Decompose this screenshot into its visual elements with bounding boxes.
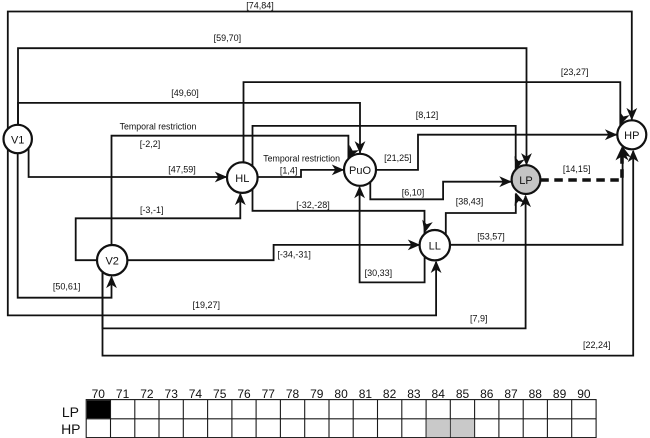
svg-text:[-34,-31]: [-34,-31] [277, 249, 311, 259]
svg-text:83: 83 [407, 387, 421, 401]
svg-text:74: 74 [189, 387, 203, 401]
table grid [86, 400, 596, 438]
svg-text:[19,27]: [19,27] [193, 300, 221, 310]
svg-text:HP: HP [61, 421, 80, 437]
svg-text:LP: LP [519, 175, 532, 187]
svg-text:85: 85 [456, 387, 470, 401]
svg-text:[-2,2]: [-2,2] [140, 139, 161, 149]
node LP [512, 165, 541, 194]
svg-text:[38,43]: [38,43] [456, 197, 484, 207]
wire LP-HP [14,15] dashed [540, 146, 628, 180]
svg-text:Temporal restriction: Temporal restriction [120, 121, 197, 131]
svg-text:75: 75 [213, 387, 227, 401]
wire PuO-HP [21,25] [376, 129, 618, 170]
svg-text:[53,57]: [53,57] [477, 232, 505, 242]
svg-text:[47,59]: [47,59] [168, 165, 196, 175]
svg-text:90: 90 [577, 387, 591, 401]
svg-text:71: 71 [116, 387, 130, 401]
svg-text:[-3,-1]: [-3,-1] [140, 205, 164, 215]
node LL [420, 230, 450, 260]
wire PuO-LP [6,10] [370, 176, 512, 199]
cell LP 70 black [87, 400, 110, 418]
wire V1-V2 [50,61] [18, 150, 117, 298]
svg-text:76: 76 [237, 387, 251, 401]
svg-text:79: 79 [310, 387, 324, 401]
wire V2-PuO [-2,2] [112, 136, 360, 247]
svg-text:70: 70 [92, 387, 106, 401]
svg-text:[59,70]: [59,70] [214, 33, 242, 43]
svg-text:84: 84 [432, 387, 446, 401]
svg-text:LL: LL [429, 241, 441, 253]
wire HL-LL [-32,-28] [253, 170, 433, 234]
svg-text:78: 78 [286, 387, 300, 401]
node V2 [97, 245, 127, 275]
wire HL-PuO [1,4] [258, 165, 345, 178]
wire V1-LL [19,27] [8, 139, 442, 315]
node PuO [344, 154, 376, 186]
svg-text:88: 88 [529, 387, 543, 401]
wire V2-LL [-34,-31] [127, 240, 421, 261]
svg-text:LP: LP [62, 404, 79, 420]
svg-text:[74,84]: [74,84] [246, 1, 274, 11]
wire LL-PuO [30,33] [354, 186, 424, 283]
svg-text:[22,24]: [22,24] [583, 340, 611, 350]
svg-text:[23,27]: [23,27] [561, 67, 589, 77]
svg-text:82: 82 [383, 387, 397, 401]
cell HP 84 gray [427, 419, 450, 437]
svg-text:HP: HP [624, 130, 639, 142]
wire V2-HP [22,24] [103, 150, 639, 356]
cell HP 85 gray [451, 419, 474, 437]
svg-text:PuO: PuO [349, 165, 371, 177]
svg-text:72: 72 [140, 387, 154, 401]
svg-text:HL: HL [235, 173, 249, 185]
svg-text:[30,33]: [30,33] [365, 268, 393, 278]
timeline table [61, 387, 596, 438]
svg-text:81: 81 [359, 387, 373, 401]
wire HL-LP [8,12] [253, 126, 525, 171]
svg-text:89: 89 [553, 387, 567, 401]
svg-text:[1,4]: [1,4] [280, 165, 298, 175]
wire V2-HL [-3,-1] [76, 193, 246, 261]
svg-text:[8,12]: [8,12] [416, 110, 439, 120]
svg-text:77: 77 [262, 387, 276, 401]
svg-text:[-32,-28]: [-32,-28] [296, 200, 330, 210]
svg-text:80: 80 [334, 387, 348, 401]
wire V1-HP [74,84] [8, 12, 637, 149]
wire HL-HP [23,27] [244, 82, 630, 162]
svg-text:V2: V2 [105, 256, 118, 268]
svg-text:86: 86 [480, 387, 494, 401]
wire V2-LP [7,9] [103, 195, 532, 329]
wire V1-LP [59,70] [18, 48, 532, 167]
svg-text:Temporal restriction: Temporal restriction [263, 154, 340, 164]
node HP [617, 120, 646, 149]
svg-text:73: 73 [165, 387, 179, 401]
table header numbers [92, 387, 591, 401]
wire V1-HL [47,59] [29, 146, 228, 182]
svg-text:V1: V1 [11, 134, 24, 146]
svg-text:[7,9]: [7,9] [470, 314, 488, 324]
svg-text:[49,60]: [49,60] [171, 88, 199, 98]
svg-text:87: 87 [504, 387, 518, 401]
svg-text:[6,10]: [6,10] [402, 188, 425, 198]
wire V1-PuO [49,60] [18, 103, 365, 155]
svg-text:[21,25]: [21,25] [384, 153, 412, 163]
svg-text:[50,61]: [50,61] [53, 282, 81, 292]
wire LL-LP [38,43] [446, 191, 525, 235]
node V1 [4, 125, 32, 153]
svg-text:[14,15]: [14,15] [563, 164, 591, 174]
wire LL-HP [53,57] [450, 145, 631, 245]
node HL [227, 162, 258, 193]
